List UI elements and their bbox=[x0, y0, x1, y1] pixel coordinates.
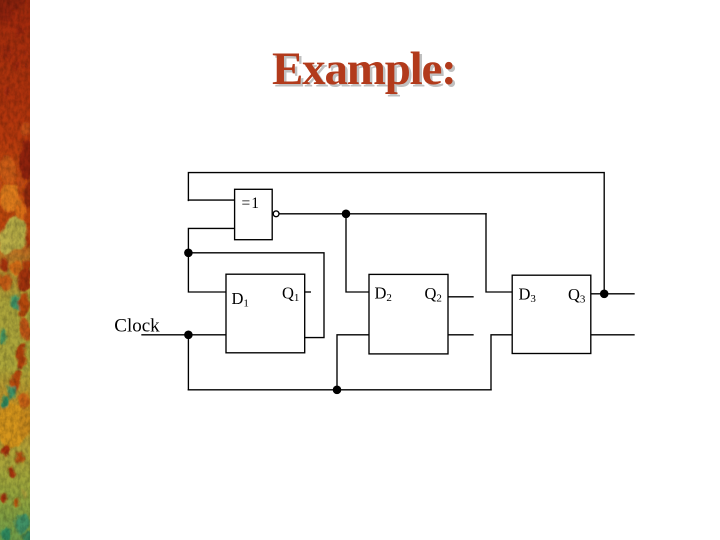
wire node D to D2 input bbox=[346, 214, 369, 292]
wire Clock input bbox=[142, 334, 226, 336]
wire clock to FF2 bbox=[337, 335, 369, 390]
junction node B clock tap bbox=[184, 331, 193, 340]
svg-text:=1: =1 bbox=[242, 195, 261, 212]
wire XOR input 2 bbox=[188, 228, 234, 252]
flip-flop FF1 box bbox=[226, 274, 305, 353]
junction node D xor output bbox=[342, 210, 351, 219]
junction node C bottom rail bbox=[333, 386, 342, 395]
wire Q1 stub bbox=[305, 291, 311, 293]
wire node A to D1 input bbox=[188, 253, 226, 292]
wire clock drop to bottom rail bbox=[187, 335, 189, 390]
wire FF3 lower stub bbox=[591, 334, 634, 336]
flip-flop FF2 box bbox=[369, 274, 448, 354]
flip-flop FF3 box bbox=[512, 275, 591, 353]
wire node A to Q1-bar loop bbox=[188, 253, 324, 338]
xor gate U1 box =1 bbox=[235, 189, 273, 239]
wire clock to FF3 bbox=[491, 335, 512, 390]
wire Q2 stub bbox=[448, 296, 473, 298]
wire Q3 output bbox=[591, 293, 634, 295]
junction node A bbox=[184, 249, 193, 258]
wire FF2 lower stub bbox=[448, 334, 473, 336]
svg-text:Clock: Clock bbox=[114, 315, 160, 336]
title: Example: bbox=[272, 46, 456, 93]
xor gate U1 output bubble bbox=[273, 211, 279, 217]
background texture strip bbox=[0, 0, 30, 540]
wire XOR output to D3 input bbox=[486, 214, 512, 292]
wire Q3 feedback top rail bbox=[188, 173, 604, 294]
wire bottom clock rail bbox=[188, 389, 491, 391]
wire XOR input 1 bbox=[188, 199, 234, 201]
wire XOR output rail bbox=[279, 213, 486, 215]
junction node E Q3 bbox=[600, 290, 609, 299]
